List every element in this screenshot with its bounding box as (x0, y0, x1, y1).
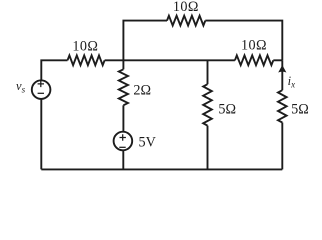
svg-text:10Ω: 10Ω (241, 37, 267, 53)
svg-text:5V: 5V (139, 135, 157, 151)
wire node B down to R4 (122, 60, 124, 69)
voltage source V2 5V circle (114, 132, 133, 151)
resistor R1 10ohm left (68, 55, 105, 65)
wire top branch right with right riser (205, 21, 282, 61)
5V minus sign (119, 146, 125, 148)
wire R1 to node B to node C (105, 59, 208, 61)
wire vs-top to R1 (41, 60, 67, 80)
resistor R4 2ohm (119, 69, 128, 105)
svg-text:ix: ix (288, 74, 295, 90)
5V plus sign (120, 134, 126, 140)
wire R3 to node D (273, 59, 282, 61)
bottom rail wire (41, 168, 282, 170)
vs plus sign (38, 81, 44, 87)
wire node D down to R6 (281, 60, 283, 90)
vs minus sign (38, 92, 44, 94)
svg-text:10Ω: 10Ω (173, 0, 199, 15)
svg-text:2Ω: 2Ω (133, 83, 151, 99)
wire node C down to R5 (207, 60, 209, 84)
wire vs source to bottom rail (40, 99, 42, 170)
voltage source V1 vs circle (32, 80, 51, 99)
wire top branch left riser (123, 21, 167, 61)
wire R6 to bottom rail (281, 123, 283, 170)
svg-text:10Ω: 10Ω (72, 38, 98, 54)
resistor R2 10ohm top (167, 16, 205, 26)
svg-text:vs: vs (16, 79, 26, 95)
wire node C to R3 (208, 59, 235, 61)
wire 5V source to bottom rail (122, 150, 124, 169)
wire R4 to 5V source (122, 105, 124, 132)
current arrow ix (278, 65, 286, 73)
svg-text:5Ω: 5Ω (218, 101, 236, 117)
wire R5 to bottom rail (207, 126, 209, 170)
resistor R5 5ohm middle (203, 84, 212, 125)
resistor R3 10ohm right (235, 55, 273, 65)
resistor R6 5ohm right (278, 90, 287, 122)
svg-text:5Ω: 5Ω (291, 102, 309, 118)
